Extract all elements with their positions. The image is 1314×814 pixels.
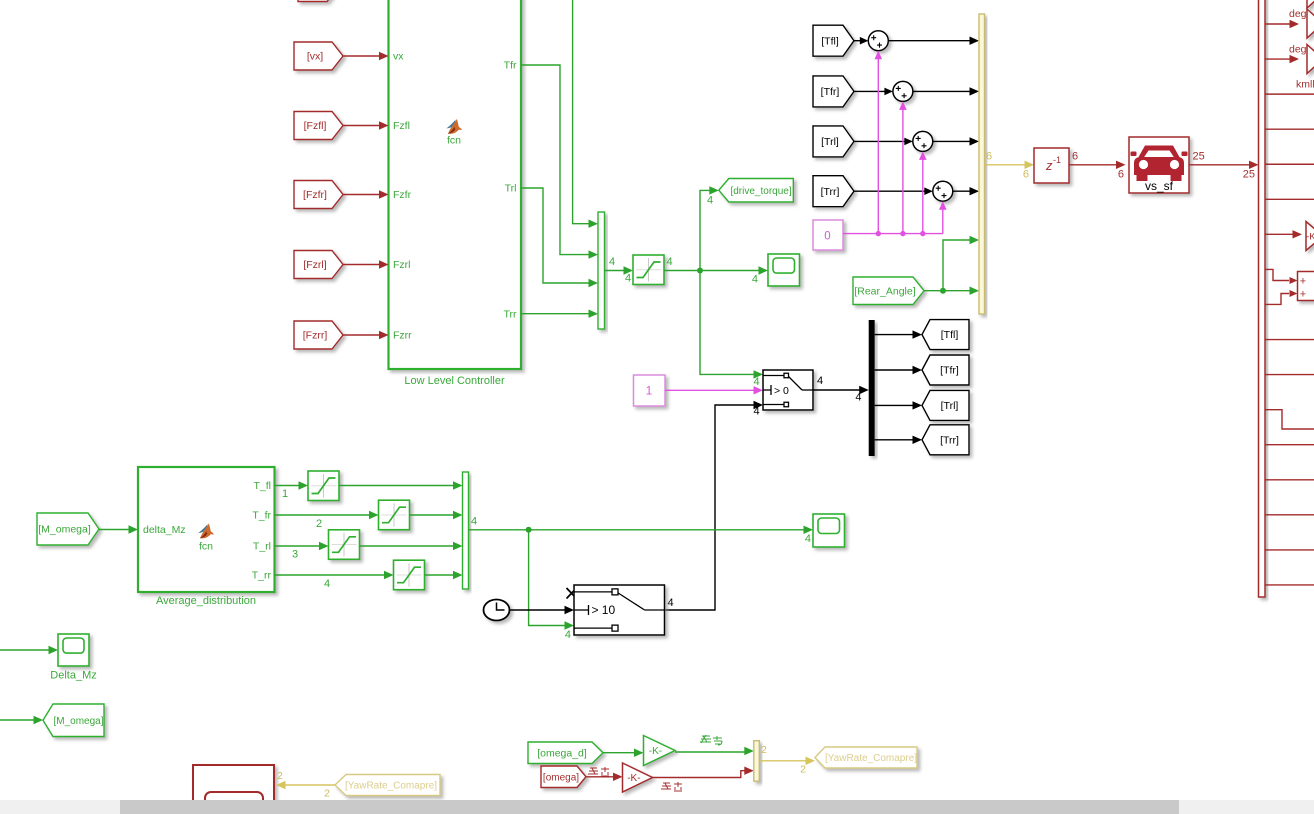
wire red gain to Mux3: [653, 771, 746, 778]
scope block Scope2: [813, 514, 845, 547]
svg-text:T_fl: T_fl: [253, 480, 271, 492]
Mux3 (yellow, 2 inputs): [754, 741, 760, 782]
clock block: [484, 600, 510, 621]
wire Unit Delay to vs_sf: [1069, 164, 1117, 166]
svg-text:T_rl: T_rl: [253, 541, 271, 553]
svg-text:4: 4: [565, 629, 571, 641]
wire Mux1 to Saturation1: [605, 270, 625, 272]
wire Demux_vs output 11: [1265, 374, 1314, 376]
wire [Trl] to sum: [854, 140, 911, 142]
wire Switch1 to Demux2: [813, 389, 860, 391]
wire [vx] to Low Level Controller: [343, 55, 380, 57]
wire M_omega to Average_distribution: [99, 529, 130, 531]
wire YawRate_Comapre to scope: [285, 784, 336, 786]
from tag [Fzrl]: [294, 251, 343, 279]
from tag [Trl] (top): [813, 126, 854, 157]
Demux2 (black bar): [869, 320, 875, 456]
fcn logo (Average_distribution): [198, 523, 214, 538]
Demux_vs (dark red bar): [1259, 0, 1266, 597]
svg-text:[Trr]: [Trr]: [940, 434, 959, 446]
svg-text:Fzrr: Fzrr: [393, 330, 412, 342]
wire magenta up into sum 3: [922, 158, 924, 233]
goto tag [Trl]: [922, 390, 969, 420]
svg-text:3: 3: [292, 549, 298, 561]
wire [Fzrr] to Low Level Controller: [343, 334, 380, 336]
wire [Tfl] to sum: [854, 40, 866, 42]
sum block (rect ++) right edge: [1298, 272, 1314, 301]
svg-text:2: 2: [277, 770, 283, 782]
svg-text:[Trl]: [Trl]: [821, 136, 839, 148]
gain triangle deg 2 (cut at edge): [1307, 45, 1314, 74]
S-function block vs_sf (car icon): [1129, 137, 1189, 193]
from tag [Fzfl]: [294, 112, 343, 140]
Mux_yellow (6 inputs): [979, 14, 985, 314]
wire Demux_vs output 2 to deg gain: [1265, 58, 1291, 60]
svg-text:Fzfl: Fzfl: [393, 120, 410, 132]
wire Demux_vs output 5: [1265, 163, 1314, 165]
svg-text:deg: deg: [1289, 8, 1307, 20]
from tag [Fzfr]: [294, 181, 343, 209]
from tag [omega]: [541, 766, 586, 788]
wire sum to Mux_yellow row [Tfl]: [888, 40, 970, 42]
svg-text:[Fzfr]: [Fzfr]: [303, 189, 327, 201]
svg-text:[Tfl]: [Tfl]: [821, 35, 839, 47]
Mux1 (green): [598, 212, 605, 329]
wire Rear_Angle to Mux_yellow (two branches): [924, 290, 971, 292]
svg-text:4: 4: [753, 376, 759, 388]
wire Demux_vs output 8 to sum (step down): [1265, 269, 1289, 280]
svg-text:-K-: -K-: [627, 773, 640, 784]
wire T port 3 to saturation: [275, 545, 321, 547]
fcn logo (Low Level Controller): [446, 119, 462, 134]
svg-text:-K-: -K-: [1306, 232, 1314, 243]
goto tag [Tfl]: [922, 320, 969, 350]
svg-text:[YawRate_Comapre]: [YawRate_Comapre]: [825, 753, 917, 764]
svg-text:[M_omega]: [M_omega]: [53, 716, 103, 727]
wire Trr to Mux1 input 4: [521, 313, 590, 315]
wire Demux_vs output 1 to deg gain: [1265, 23, 1291, 25]
wire Demux_vs output 12 (step down): [1265, 410, 1314, 429]
svg-text:4: 4: [625, 273, 631, 285]
wire saturation 3 to Mux2: [360, 545, 455, 547]
wire sum to Mux_yellow row [Trr]: [953, 190, 971, 192]
svg-text:+: +: [1300, 276, 1306, 288]
constant block 0 (magenta): [813, 220, 843, 250]
svg-text:1: 1: [646, 386, 652, 398]
subsystem block Average_distribution: [138, 467, 275, 592]
saturation block sat_4: [394, 560, 425, 590]
svg-text:T_fr: T_fr: [252, 510, 271, 522]
svg-text:fcn: fcn: [447, 135, 461, 147]
partial From tag (cut at top edge): [298, 0, 338, 2]
wire saturation 1 to Mux2: [339, 485, 454, 487]
svg-text:+: +: [1300, 289, 1306, 301]
junction node magenta 1: [876, 231, 881, 236]
scope block Delta_Mz: [58, 634, 89, 666]
svg-text:vs_sf: vs_sf: [1145, 179, 1174, 193]
wire magenta up into sum 4: [942, 208, 944, 233]
svg-text:[M_omega]: [M_omega]: [38, 524, 91, 536]
scope block YawRate compare (cut at bottom): [193, 765, 274, 814]
svg-text:[drive_torque]: [drive_torque]: [730, 186, 791, 197]
wire omega to gain: [586, 776, 614, 778]
wire Demux2 to goto [Trl]: [875, 404, 914, 406]
wire Mux2 to Scope2: [469, 529, 805, 531]
label shiji 1 (CJK): [588, 767, 609, 776]
svg-text:4: 4: [753, 406, 759, 418]
svg-text:Fzfr: Fzfr: [393, 189, 412, 201]
wire sum to Mux_yellow row [Trl]: [933, 140, 971, 142]
wire magenta up into sum 2: [902, 108, 904, 233]
wire into Delta_Mz scope (from left edge): [0, 649, 50, 651]
Mux2 (green): [463, 472, 469, 589]
gain block -K- (green): [644, 736, 676, 766]
svg-text:fcn: fcn: [199, 541, 213, 553]
svg-text:Trl: Trl: [505, 183, 517, 195]
subsystem block Low Level Controller: [389, 0, 522, 369]
svg-text:4: 4: [752, 274, 758, 286]
from tag [Tfr] (top): [813, 76, 854, 107]
gain triangle -K- (cut at edge): [1306, 222, 1314, 251]
wire Tfl (from above) to Mux1 input 1: [573, 0, 590, 224]
wire into goto M_omega (from left edge): [0, 719, 35, 721]
wire junction up to goto drive_torque: [700, 190, 711, 270]
svg-text:Average_distribution: Average_distribution: [156, 595, 256, 607]
wire T port 2 to saturation: [275, 514, 371, 516]
constant block 1 (magenta): [634, 375, 666, 406]
wire Mux_yellow to Unit Delay: [985, 164, 1026, 166]
svg-text:4: 4: [707, 195, 713, 207]
svg-text:> 10: > 10: [591, 603, 615, 617]
svg-text:[omega_d]: [omega_d]: [537, 747, 587, 759]
from tag [Tfl] (top): [813, 25, 854, 56]
unit delay block z^-1: [1034, 148, 1069, 183]
wire Saturation1 to Scope1: [664, 270, 760, 272]
wire [Fzfl] to Low Level Controller: [343, 125, 380, 127]
wire Demux_vs output 13: [1265, 444, 1314, 446]
wire saturation 4 to Mux2: [425, 574, 455, 576]
switch block Switch2 (> 10): [574, 585, 665, 635]
wire junction down to Switch1 input 1: [700, 271, 755, 375]
svg-text:[Fzrl]: [Fzrl]: [303, 259, 326, 271]
wire Demux2 to goto [Tfr]: [875, 369, 914, 371]
wire Demux_vs output 4: [1265, 128, 1314, 130]
svg-text:vx: vx: [393, 51, 404, 63]
svg-text:2: 2: [316, 518, 322, 530]
wire constant 0 distribution (magenta): [843, 233, 943, 235]
svg-text:2: 2: [800, 764, 806, 776]
svg-text:4: 4: [805, 533, 811, 545]
svg-text:delta_Mz: delta_Mz: [143, 524, 186, 536]
junction node magenta 3: [920, 231, 925, 236]
gain triangle above top edge (cut): [1307, 0, 1314, 8]
wire Demux_vs output 9 to sum (step up): [1265, 294, 1289, 305]
from tag [omega_d]: [528, 742, 603, 764]
from tag [Rear_Angle]: [853, 277, 924, 305]
label cankao (CJK): [700, 735, 722, 745]
scrollbar thumb: [120, 800, 1179, 814]
wire Demux2 to goto [Trr]: [875, 439, 914, 441]
wire Demux_vs output 7 to -K- gain: [1265, 233, 1294, 235]
wire [Fzrl] to Low Level Controller: [343, 264, 380, 266]
sum block (round, ++) row [Trr]: [933, 181, 953, 201]
wire Demux_vs output 10: [1265, 339, 1314, 341]
svg-text:25: 25: [1243, 169, 1255, 181]
wire sum to Mux_yellow row [Tfr]: [913, 90, 971, 92]
wire [Tfr] to sum: [854, 90, 891, 92]
svg-text:2: 2: [324, 788, 330, 800]
wire gain to Mux3 + label cankao: [675, 751, 746, 752]
wire Switch2 output up to Switch1 input 3: [665, 405, 755, 610]
wire clock to Switch2 input 2: [510, 609, 566, 611]
svg-text:1: 1: [282, 488, 288, 500]
wire Demux_vs output 17: [1265, 584, 1314, 586]
svg-text:kmlh: kmlh: [1296, 79, 1314, 91]
junction node magenta 2: [900, 231, 905, 236]
sum block (round, ++) row [Tfr]: [893, 81, 913, 101]
from tag [M_omega]: [37, 513, 99, 545]
svg-text:-1: -1: [1053, 155, 1061, 165]
sum block (round, ++) row [Trl]: [913, 131, 933, 151]
wire constant 1 to Switch1 input 2: [665, 389, 755, 391]
from tag [YawRate_Comapre] (points left): [335, 775, 440, 796]
scope block Scope1: [768, 254, 800, 286]
svg-text:z: z: [1045, 158, 1053, 173]
wire Tfr to Mux1 input 2: [521, 65, 590, 255]
wire vs_sf to Demux_vs (25 signals): [1189, 164, 1250, 166]
svg-text:6: 6: [1023, 169, 1029, 181]
svg-text:[Trr]: [Trr]: [821, 186, 840, 198]
svg-text:Trr: Trr: [503, 309, 517, 321]
svg-text:Tfr: Tfr: [504, 60, 517, 72]
junction node on drive torque net: [697, 268, 703, 274]
goto tag [Tfr]: [922, 355, 969, 385]
from tag [Fzrr]: [294, 321, 343, 349]
wire Mux3 to goto YawRate_Comapre: [759, 760, 806, 762]
gain block -K- (dark red): [623, 763, 653, 792]
wire Demux_vs output 14: [1265, 479, 1314, 481]
wire Demux_vs output 16: [1265, 549, 1314, 551]
svg-text:25: 25: [1193, 151, 1205, 163]
svg-text:Low Level Controller: Low Level Controller: [404, 375, 505, 387]
svg-text:2: 2: [761, 744, 767, 756]
saturation block sat_2: [379, 500, 410, 530]
wire T port 1 to saturation: [275, 485, 300, 487]
svg-text:Fzrl: Fzrl: [393, 259, 411, 271]
switch block Switch1 (> 0): [763, 370, 813, 410]
svg-text:-K-: -K-: [649, 746, 662, 757]
wire Demux_vs output 6: [1265, 198, 1314, 200]
goto tag [M_omega]: [43, 704, 104, 737]
svg-text:[Tfr]: [Tfr]: [821, 86, 840, 98]
svg-text:[Fzrr]: [Fzrr]: [303, 330, 328, 342]
saturation block sat_3: [329, 530, 360, 560]
saturation block Saturation1: [633, 255, 664, 285]
svg-text:[Trl]: [Trl]: [941, 400, 959, 412]
svg-text:T_rr: T_rr: [252, 570, 272, 582]
svg-text:4: 4: [609, 256, 615, 268]
svg-text:4: 4: [855, 392, 861, 404]
svg-text:0: 0: [824, 231, 830, 243]
wire [Trr] to sum: [854, 190, 931, 192]
svg-text:[Rear_Angle]: [Rear_Angle]: [854, 285, 915, 297]
junction node Mux2 output: [526, 527, 532, 533]
wire magenta up into sum 1: [877, 58, 879, 234]
wire Demux2 to goto [Tfl]: [875, 334, 914, 336]
svg-text:6: 6: [1118, 169, 1124, 181]
svg-text:6: 6: [1072, 151, 1078, 163]
gain triangle deg 1 (cut at edge): [1307, 9, 1314, 38]
svg-text:[vx]: [vx]: [307, 51, 323, 63]
svg-text:deg: deg: [1289, 44, 1307, 56]
from tag [vx]: [294, 42, 343, 70]
svg-text:[YawRate_Comapre]: [YawRate_Comapre]: [345, 781, 437, 792]
wire saturation 2 to Mux2: [410, 514, 455, 516]
scrollbar track: [0, 800, 1314, 814]
goto tag [YawRate_Comapre]: [815, 747, 917, 768]
saturation block sat_1: [308, 471, 339, 501]
unconnected port marker X on Switch2 input 1: [567, 588, 577, 599]
svg-text:[Tfr]: [Tfr]: [940, 365, 959, 377]
svg-text:4: 4: [667, 256, 673, 268]
svg-text:6: 6: [986, 151, 992, 163]
sum block (round, ++) row [Tfl]: [868, 31, 888, 51]
svg-text:4: 4: [471, 516, 477, 528]
svg-text:4: 4: [668, 597, 674, 609]
goto tag [Trr]: [922, 425, 969, 455]
wire Demux_vs output 3: [1265, 93, 1314, 95]
wire Trl to Mux1 input 3: [521, 188, 590, 283]
svg-text:4: 4: [324, 578, 330, 590]
junction node Rear_Angle: [940, 288, 946, 294]
svg-text:[Fzfl]: [Fzfl]: [304, 120, 327, 132]
label shiji 2 (CJK): [661, 782, 682, 791]
goto tag [drive_torque]: [719, 179, 794, 203]
svg-text:[Tfl]: [Tfl]: [941, 329, 959, 341]
from tag [Trr] (top): [813, 176, 854, 207]
wire Demux_vs output 15: [1265, 514, 1314, 516]
svg-text:> 0: > 0: [774, 385, 789, 397]
wire omega_d to gain: [603, 752, 635, 754]
svg-text:Delta_Mz: Delta_Mz: [50, 670, 96, 682]
svg-text:4: 4: [817, 375, 823, 387]
wire junction down to Switch2 input 3: [529, 530, 566, 626]
wire T port 4 to saturation: [275, 574, 386, 576]
wire [Fzfr] to Low Level Controller: [343, 194, 380, 196]
svg-text:[omega]: [omega]: [543, 772, 579, 783]
